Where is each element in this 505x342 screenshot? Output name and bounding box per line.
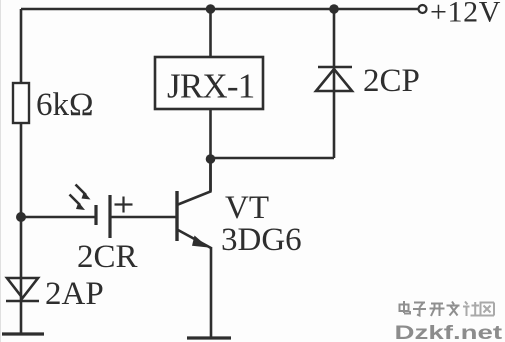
resistor 6k ohm body — [13, 83, 29, 123]
watermark chinese text 电子开发社区 — [400, 301, 495, 316]
ground left — [2, 332, 44, 335]
wire rail to relay JRX-1 — [209, 9, 212, 57]
wire left branch vertical (rail to resistor) — [20, 9, 23, 83]
svg-text:6kΩ: 6kΩ — [36, 87, 94, 123]
diode 2CP cathode bar — [318, 66, 352, 69]
svg-text:VT: VT — [225, 190, 269, 226]
wire top +12V rail — [21, 8, 418, 11]
wire diode 2CP anode vertical — [333, 66, 336, 158]
svg-text:Dzkf.net: Dzkf.net — [395, 322, 503, 342]
transistor VT base bar — [175, 191, 178, 241]
wire emitter to ground — [210, 247, 213, 338]
ground right — [187, 336, 231, 339]
terminal +12V circle — [419, 5, 427, 13]
svg-text:2AP: 2AP — [45, 276, 104, 312]
svg-text:+12V: +12V — [430, 0, 501, 29]
transistor VT emitter lead — [178, 230, 211, 248]
transistor VT emitter arrowhead — [192, 236, 209, 248]
wire diode 2AP to ground — [20, 301, 23, 334]
photocell 2CR negative plate (short) — [94, 205, 97, 225]
junction node B collector — [206, 154, 216, 164]
photocell 2CR light arrow 2 — [70, 195, 81, 206]
svg-text:JRX-1: JRX-1 — [167, 67, 254, 106]
watermark Dzkf.net — [395, 322, 503, 342]
wire node A to photocell 2CR — [21, 216, 96, 219]
svg-text:2CP: 2CP — [363, 63, 420, 99]
wire node A to diode 2AP — [20, 217, 23, 302]
photocell 2CR light arrowhead 2 — [76, 202, 85, 210]
junction node A — [16, 212, 26, 222]
junction rail / diode 2CP — [329, 4, 339, 14]
wire photocell 2CR to base of VT — [110, 216, 176, 219]
photocell 2CR light arrowhead 1 — [82, 192, 91, 200]
svg-text:3DG6: 3DG6 — [221, 222, 302, 258]
diode 2CP body (cathode up) — [316, 69, 352, 91]
junction rail / relay — [206, 4, 216, 14]
photocell 2CR light arrow 1 — [76, 185, 87, 196]
wire node B to diode 2CP — [211, 157, 335, 160]
svg-text:2CR: 2CR — [77, 239, 138, 275]
diode 2AP cathode bar — [6, 300, 39, 303]
photocell 2CR positive plate (long) — [108, 195, 111, 238]
wire relay JRX-1 to collector node B — [209, 109, 212, 191]
wire diode 2CP cathode to rail — [333, 9, 336, 67]
diode 2AP body (cathode down) — [7, 278, 38, 298]
relay JRX-1 coil box — [155, 57, 263, 109]
transistor VT collector lead — [178, 163, 211, 205]
photocell 2CR plus sign — [115, 197, 133, 213]
wire resistor to node A — [20, 123, 23, 217]
